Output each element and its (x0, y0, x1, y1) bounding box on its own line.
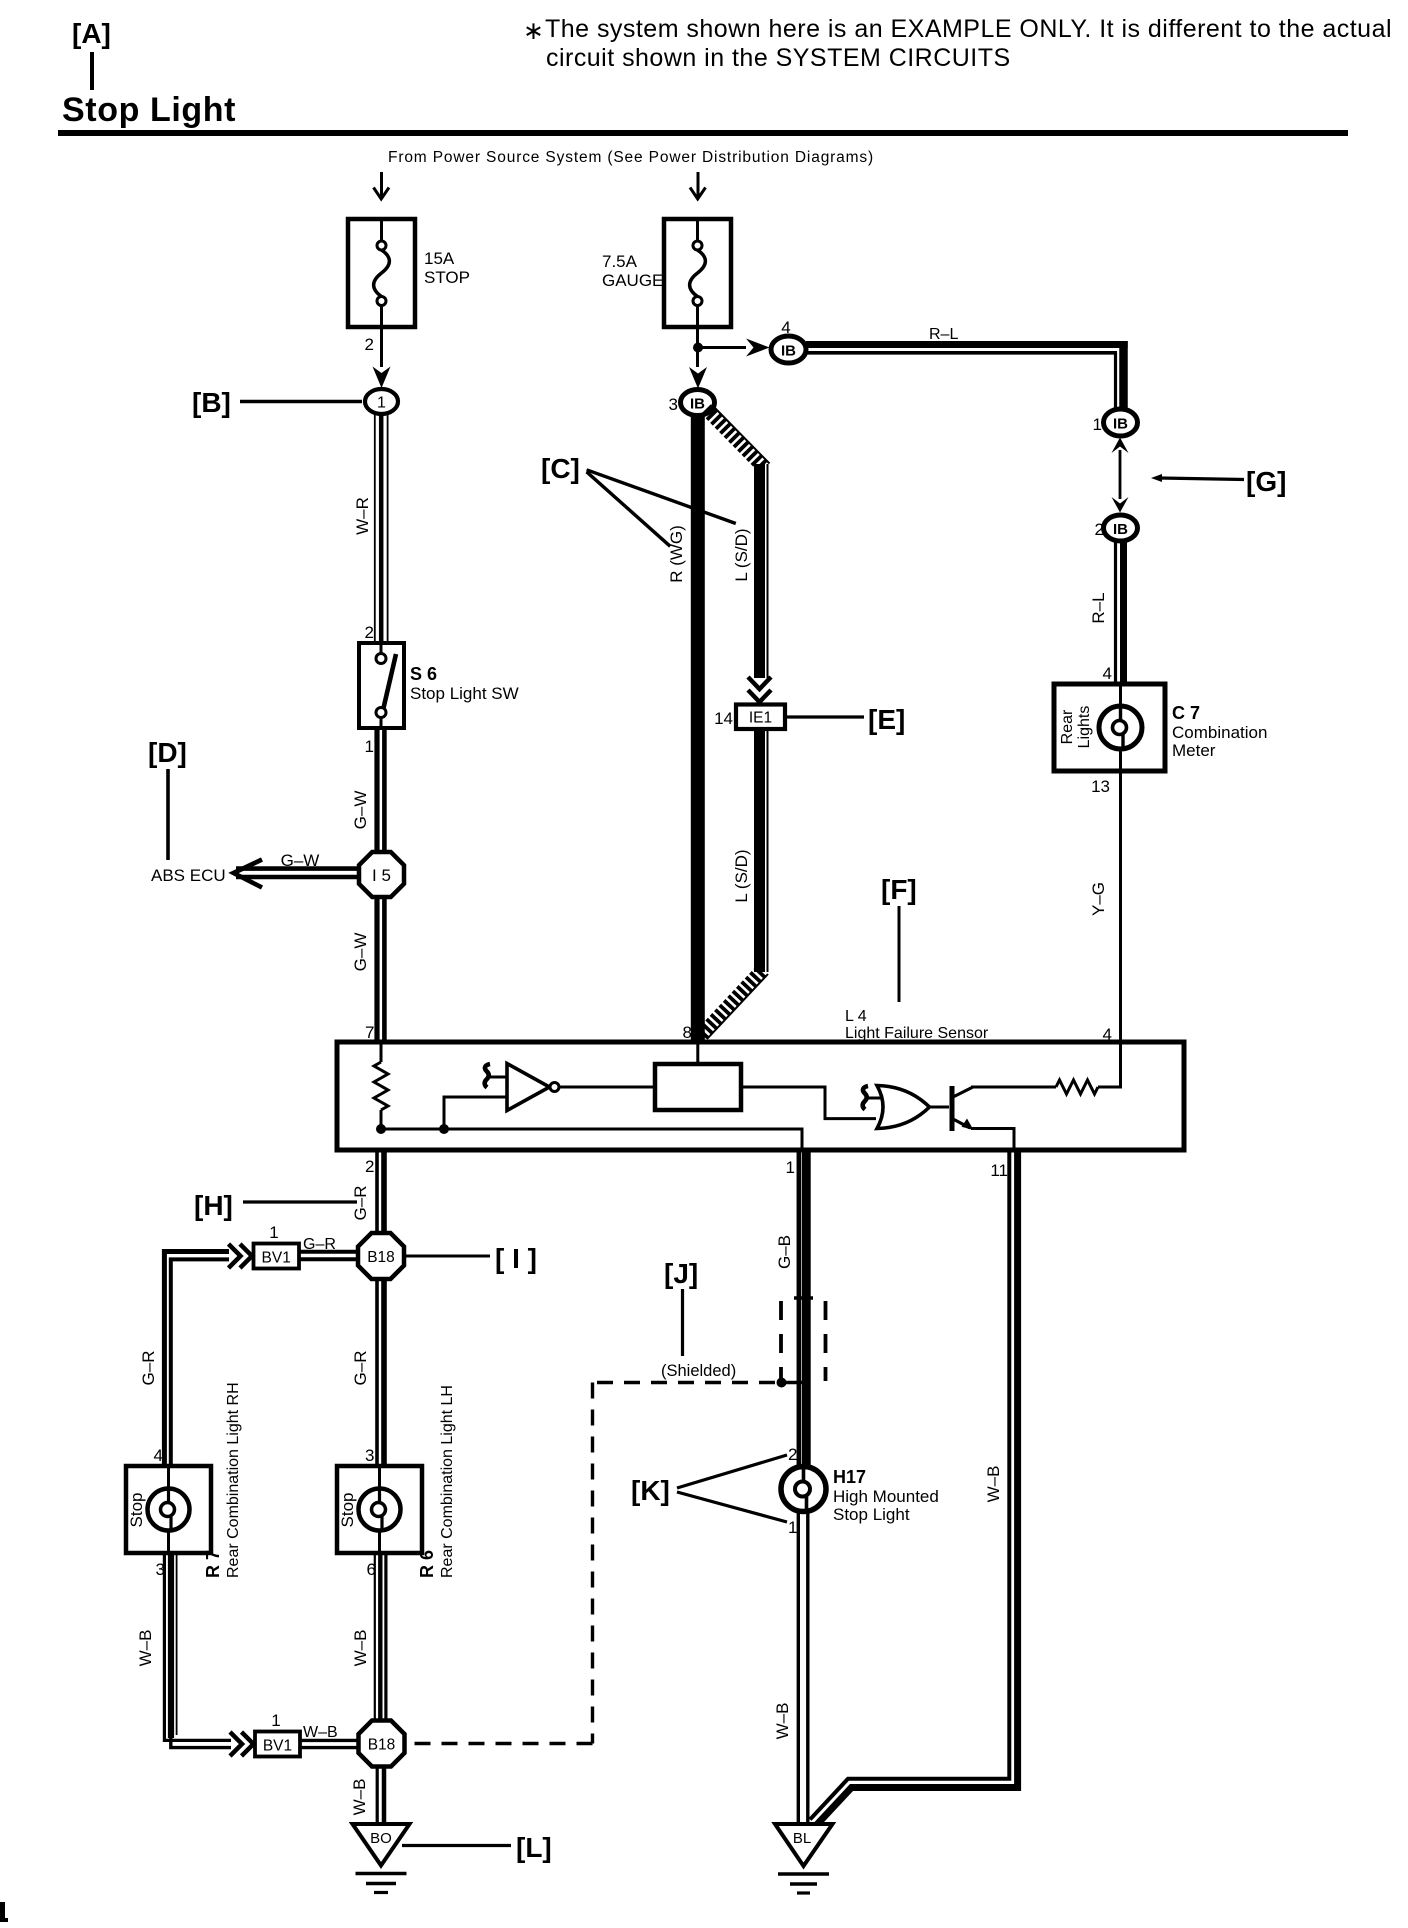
svg-text:15A: 15A (424, 249, 455, 268)
wire between IB1 and IB2 with arrows (1112, 438, 1129, 513)
wire fuse F1 to connector, pin 2 (365, 327, 391, 388)
svg-text:IB: IB (1113, 521, 1128, 538)
fuse F1 15A STOP (348, 219, 470, 327)
connector IB pin 1 (1093, 409, 1138, 436)
svg-text:4: 4 (154, 1446, 163, 1465)
svg-text:G–R: G–R (303, 1236, 336, 1253)
sensor coil symbol at OR gate input (863, 1086, 884, 1110)
wire W-B lamp R6 to B18 lower (351, 1553, 386, 1721)
svg-text:W–R: W–R (353, 497, 372, 535)
connector IB pin 2 (1095, 515, 1138, 541)
resistor R2 inside L4 (1056, 1080, 1098, 1094)
transistor Q1 (950, 1086, 974, 1131)
svg-text:1: 1 (1093, 415, 1102, 434)
node C label (541, 453, 736, 546)
wire resistor R2 to pin 4 (1098, 1042, 1121, 1087)
svg-text:Rear Combination Light LH: Rear Combination Light LH (439, 1385, 456, 1578)
wire shield drain dashed to B18 lower (405, 1383, 803, 1744)
svg-text:ABS ECU: ABS ECU (151, 866, 226, 885)
svg-text:W–B: W–B (136, 1630, 155, 1667)
wire W-B L4 pin 11 down, corner to ground BL (810, 1150, 1018, 1825)
connector IB pin 4 (771, 318, 806, 363)
node F label (881, 874, 917, 1002)
svg-text:L (S/D): L (S/D) (732, 849, 751, 902)
svg-text:L 4: L 4 (845, 1008, 867, 1025)
svg-text:The system shown here is an EX: The system shown here is an EXAMPLE ONLY… (545, 15, 1392, 43)
svg-text:W–B: W–B (984, 1466, 1003, 1503)
svg-text:∗: ∗ (523, 17, 544, 45)
lamp R7 Stop bulb (RH) (126, 1382, 242, 1579)
svg-text:[J]: [J] (664, 1258, 698, 1289)
svg-text:Light Failure Sensor: Light Failure Sensor (845, 1025, 989, 1042)
wire G-W switch to I5, pin 1 (351, 728, 384, 853)
svg-text:High Mounted: High Mounted (833, 1487, 939, 1506)
svg-text:BV1: BV1 (263, 1738, 292, 1755)
svg-text:Stop Light SW: Stop Light SW (410, 684, 519, 703)
wire G-R B18 down to lamp R6 pin 3 (351, 1279, 384, 1466)
wire W-B BV1 lower to B18 lower (300, 1724, 359, 1748)
svg-text:Y–G: Y–G (1089, 882, 1108, 916)
svg-text:GAUGE: GAUGE (602, 271, 663, 290)
wire G-W arrow to ABS ECU (151, 851, 359, 888)
svg-text:Lights: Lights (1076, 706, 1093, 749)
wire Y-G meter pin13 to L4 pin 4 (1089, 771, 1121, 1044)
svg-text:IB: IB (690, 396, 705, 413)
svg-text:Stop Light: Stop Light (62, 91, 236, 129)
svg-text:1: 1 (271, 1711, 280, 1730)
svg-text:BO: BO (370, 1830, 392, 1847)
wire control unit to OR gate (741, 1087, 876, 1119)
inverter U1 (507, 1064, 559, 1111)
svg-text:4: 4 (1103, 664, 1112, 683)
svg-text:BL: BL (793, 1830, 811, 1847)
svg-text:C 7: C 7 (1172, 703, 1200, 723)
svg-text:R 6: R 6 (417, 1550, 437, 1578)
node G label (1151, 466, 1286, 497)
svg-text:[C]: [C] (541, 453, 580, 484)
svg-text:7.5A: 7.5A (602, 252, 638, 271)
wire feed into fuse F1 (374, 172, 390, 199)
svg-text:R–L: R–L (929, 326, 958, 343)
svg-text:B18: B18 (368, 1737, 396, 1754)
svg-text:G–R: G–R (351, 1351, 370, 1386)
sensor coil symbol at inverter input (485, 1064, 507, 1088)
svg-text:Rear: Rear (1059, 709, 1076, 744)
wire L (S/D) vertical upper section (732, 464, 768, 678)
node H label (194, 1190, 357, 1221)
node L label (402, 1832, 552, 1863)
svg-text:[A]: [A] (72, 18, 111, 49)
fuse F2 7.5A GAUGE (602, 219, 731, 327)
svg-text:From Power Source System (See: From Power Source System (See Power Dist… (388, 149, 874, 166)
junction chevrons into BV1 lower (230, 1732, 254, 1756)
svg-text:G–W: G–W (281, 851, 320, 870)
light failure sensor L4 box (337, 1008, 1184, 1150)
svg-text:(Shielded): (Shielded) (661, 1362, 736, 1380)
wire W-R oval to switch S6 (353, 414, 388, 643)
connector BV1 lower, pin 1 (255, 1711, 300, 1757)
svg-text:[D]: [D] (148, 737, 187, 768)
connector IE1, pin 14 (714, 705, 785, 730)
node D label (148, 737, 187, 860)
wire W-B H17 to ground BL (773, 1512, 808, 1825)
svg-text:1: 1 (786, 1158, 795, 1177)
svg-text:Stop Light: Stop Light (833, 1505, 910, 1524)
svg-text:S 6: S 6 (410, 664, 437, 684)
svg-text:7: 7 (365, 1023, 374, 1042)
OR gate U2 (877, 1086, 930, 1129)
svg-text:G–W: G–W (351, 791, 370, 830)
wire transistor collector to resistor R2 (971, 1086, 1056, 1089)
svg-text:Meter: Meter (1172, 741, 1216, 760)
wire G-R L4 pin 2 to connector B18 (351, 1150, 384, 1234)
svg-text:I 5: I 5 (372, 866, 391, 885)
connector oval 1 (365, 389, 398, 414)
connector B18 upper octagon (358, 1233, 404, 1279)
svg-text:Stop: Stop (338, 1493, 357, 1528)
lamp H17 High Mounted Stop Light (781, 1445, 939, 1537)
wire L (S/D) shielded upper hatched section (706, 407, 770, 469)
wire feed into fuse F2 (690, 172, 706, 199)
svg-text:14: 14 (714, 709, 733, 728)
wire internal bottom rail to pin 1 (381, 1129, 802, 1150)
svg-text:B18: B18 (367, 1249, 395, 1266)
svg-text:[H]: [H] (194, 1190, 233, 1221)
wire fuse F2 down to connector 3 IB with junction (689, 327, 707, 389)
wire R-L IB2 to combination meter (1089, 541, 1124, 684)
title Stop Light (58, 91, 1348, 136)
svg-text:[L]: [L] (516, 1832, 552, 1863)
node A label (72, 18, 111, 90)
ground BL (775, 1824, 833, 1893)
wire G-W I5 to L4 pin 7 (351, 897, 384, 1042)
svg-text:Stop: Stop (127, 1493, 146, 1528)
svg-text:R (WG): R (WG) (667, 525, 686, 583)
svg-text:IE1: IE1 (749, 710, 772, 727)
wire W-B B18 lower to ground BO (350, 1767, 384, 1825)
wire transistor emitter to pin 11 (971, 1129, 1014, 1151)
svg-text:1: 1 (365, 737, 374, 756)
svg-text:8: 8 (683, 1023, 692, 1042)
control unit box inside L4 (655, 1064, 741, 1110)
connector B18 lower octagon (359, 1721, 405, 1767)
wire W-B lamp R7 to BV1 lower (136, 1553, 231, 1748)
wire R-L from IB4 to corner down to 1 IB (806, 326, 1128, 409)
svg-text:[E]: [E] (868, 704, 905, 735)
junction dot internal second (439, 1124, 449, 1134)
wire OR gate to transistor base (930, 1106, 950, 1109)
svg-text:BV1: BV1 (262, 1250, 291, 1267)
svg-text:Rear Combination Light RH: Rear Combination Light RH (225, 1382, 242, 1578)
page corner mark (0, 1902, 8, 1922)
wire junction to connector 4 IB (698, 339, 770, 357)
svg-text:1: 1 (269, 1223, 278, 1242)
svg-text:H17: H17 (833, 1467, 866, 1487)
svg-text:circuit shown in the SYSTEM CI: circuit shown in the SYSTEM CIRCUITS (546, 44, 1011, 72)
junction dot on shield corner (777, 1378, 787, 1388)
node B label (192, 387, 362, 418)
ground BO (353, 1824, 410, 1893)
wire internal to inverter input (444, 1097, 507, 1129)
svg-text:2: 2 (365, 335, 374, 354)
svg-text:IB: IB (1113, 416, 1128, 433)
node K label (631, 1455, 787, 1522)
node I label (406, 1243, 537, 1274)
svg-text:1: 1 (377, 395, 386, 412)
switch S6 Stop Light SW (359, 643, 519, 728)
wire L (S/D) lower hatched section (700, 971, 768, 1039)
node E label (785, 704, 905, 735)
svg-text:[K]: [K] (631, 1475, 670, 1506)
svg-text:L (S/D): L (S/D) (732, 528, 751, 581)
svg-text:STOP: STOP (424, 268, 470, 287)
resistor R1 inside L4 (374, 1042, 388, 1129)
svg-text:W–B: W–B (350, 1779, 369, 1816)
connector I5 octagon (359, 852, 404, 897)
svg-text:3: 3 (669, 395, 678, 414)
svg-text:2: 2 (365, 1157, 374, 1176)
lamp R6 Stop bulb (LH) (337, 1385, 456, 1579)
svg-text:11: 11 (990, 1161, 1008, 1180)
svg-text:R–L: R–L (1089, 592, 1108, 623)
connector BV1 upper, pin 1 (254, 1223, 300, 1269)
svg-text:[F]: [F] (881, 874, 917, 905)
wire stub from pin 8 into control unit box (696, 1042, 699, 1064)
svg-text:G–B: G–B (775, 1235, 794, 1269)
svg-text:W–B: W–B (303, 1724, 338, 1741)
svg-text:W–B: W–B (351, 1630, 370, 1667)
svg-text:[G]: [G] (1246, 466, 1286, 497)
note text (523, 15, 1392, 72)
wire inverter to control unit box (559, 1086, 655, 1089)
connector IB pin 3 (669, 390, 715, 416)
svg-text:3: 3 (365, 1446, 374, 1465)
svg-text:1: 1 (788, 1518, 797, 1537)
svg-text:Combination: Combination (1172, 723, 1267, 742)
svg-text:W–B: W–B (773, 1703, 792, 1740)
node J label (664, 1258, 698, 1356)
wire L (S/D) vertical lower section (732, 729, 768, 972)
svg-text:G–R: G–R (139, 1351, 158, 1386)
wire R (WG) heavy from IB3 to L4 pin 8 (667, 415, 698, 1042)
shield dashed box around G-B wire (781, 1298, 826, 1381)
wire G-B L4 pin 1 to lamp H17 (775, 1150, 806, 1466)
svg-text:2: 2 (788, 1445, 797, 1464)
wire G-R corner down to lamp R7 pin 4 (139, 1252, 229, 1467)
svg-text:IB: IB (781, 343, 796, 360)
junction chevrons into BV1 upper (229, 1244, 253, 1268)
combination meter C7 (1054, 684, 1267, 771)
junction dot internal left (376, 1124, 386, 1134)
svg-text:G–W: G–W (351, 933, 370, 972)
junction chevrons into IE1 (748, 677, 771, 702)
svg-text:[ I ]: [ I ] (495, 1243, 537, 1274)
svg-text:13: 13 (1091, 777, 1110, 796)
svg-text:R 7: R 7 (203, 1550, 223, 1578)
wire G-R B18 left to BV1 and corner (299, 1236, 358, 1259)
svg-text:[B]: [B] (192, 387, 231, 418)
svg-text:2: 2 (365, 623, 374, 642)
